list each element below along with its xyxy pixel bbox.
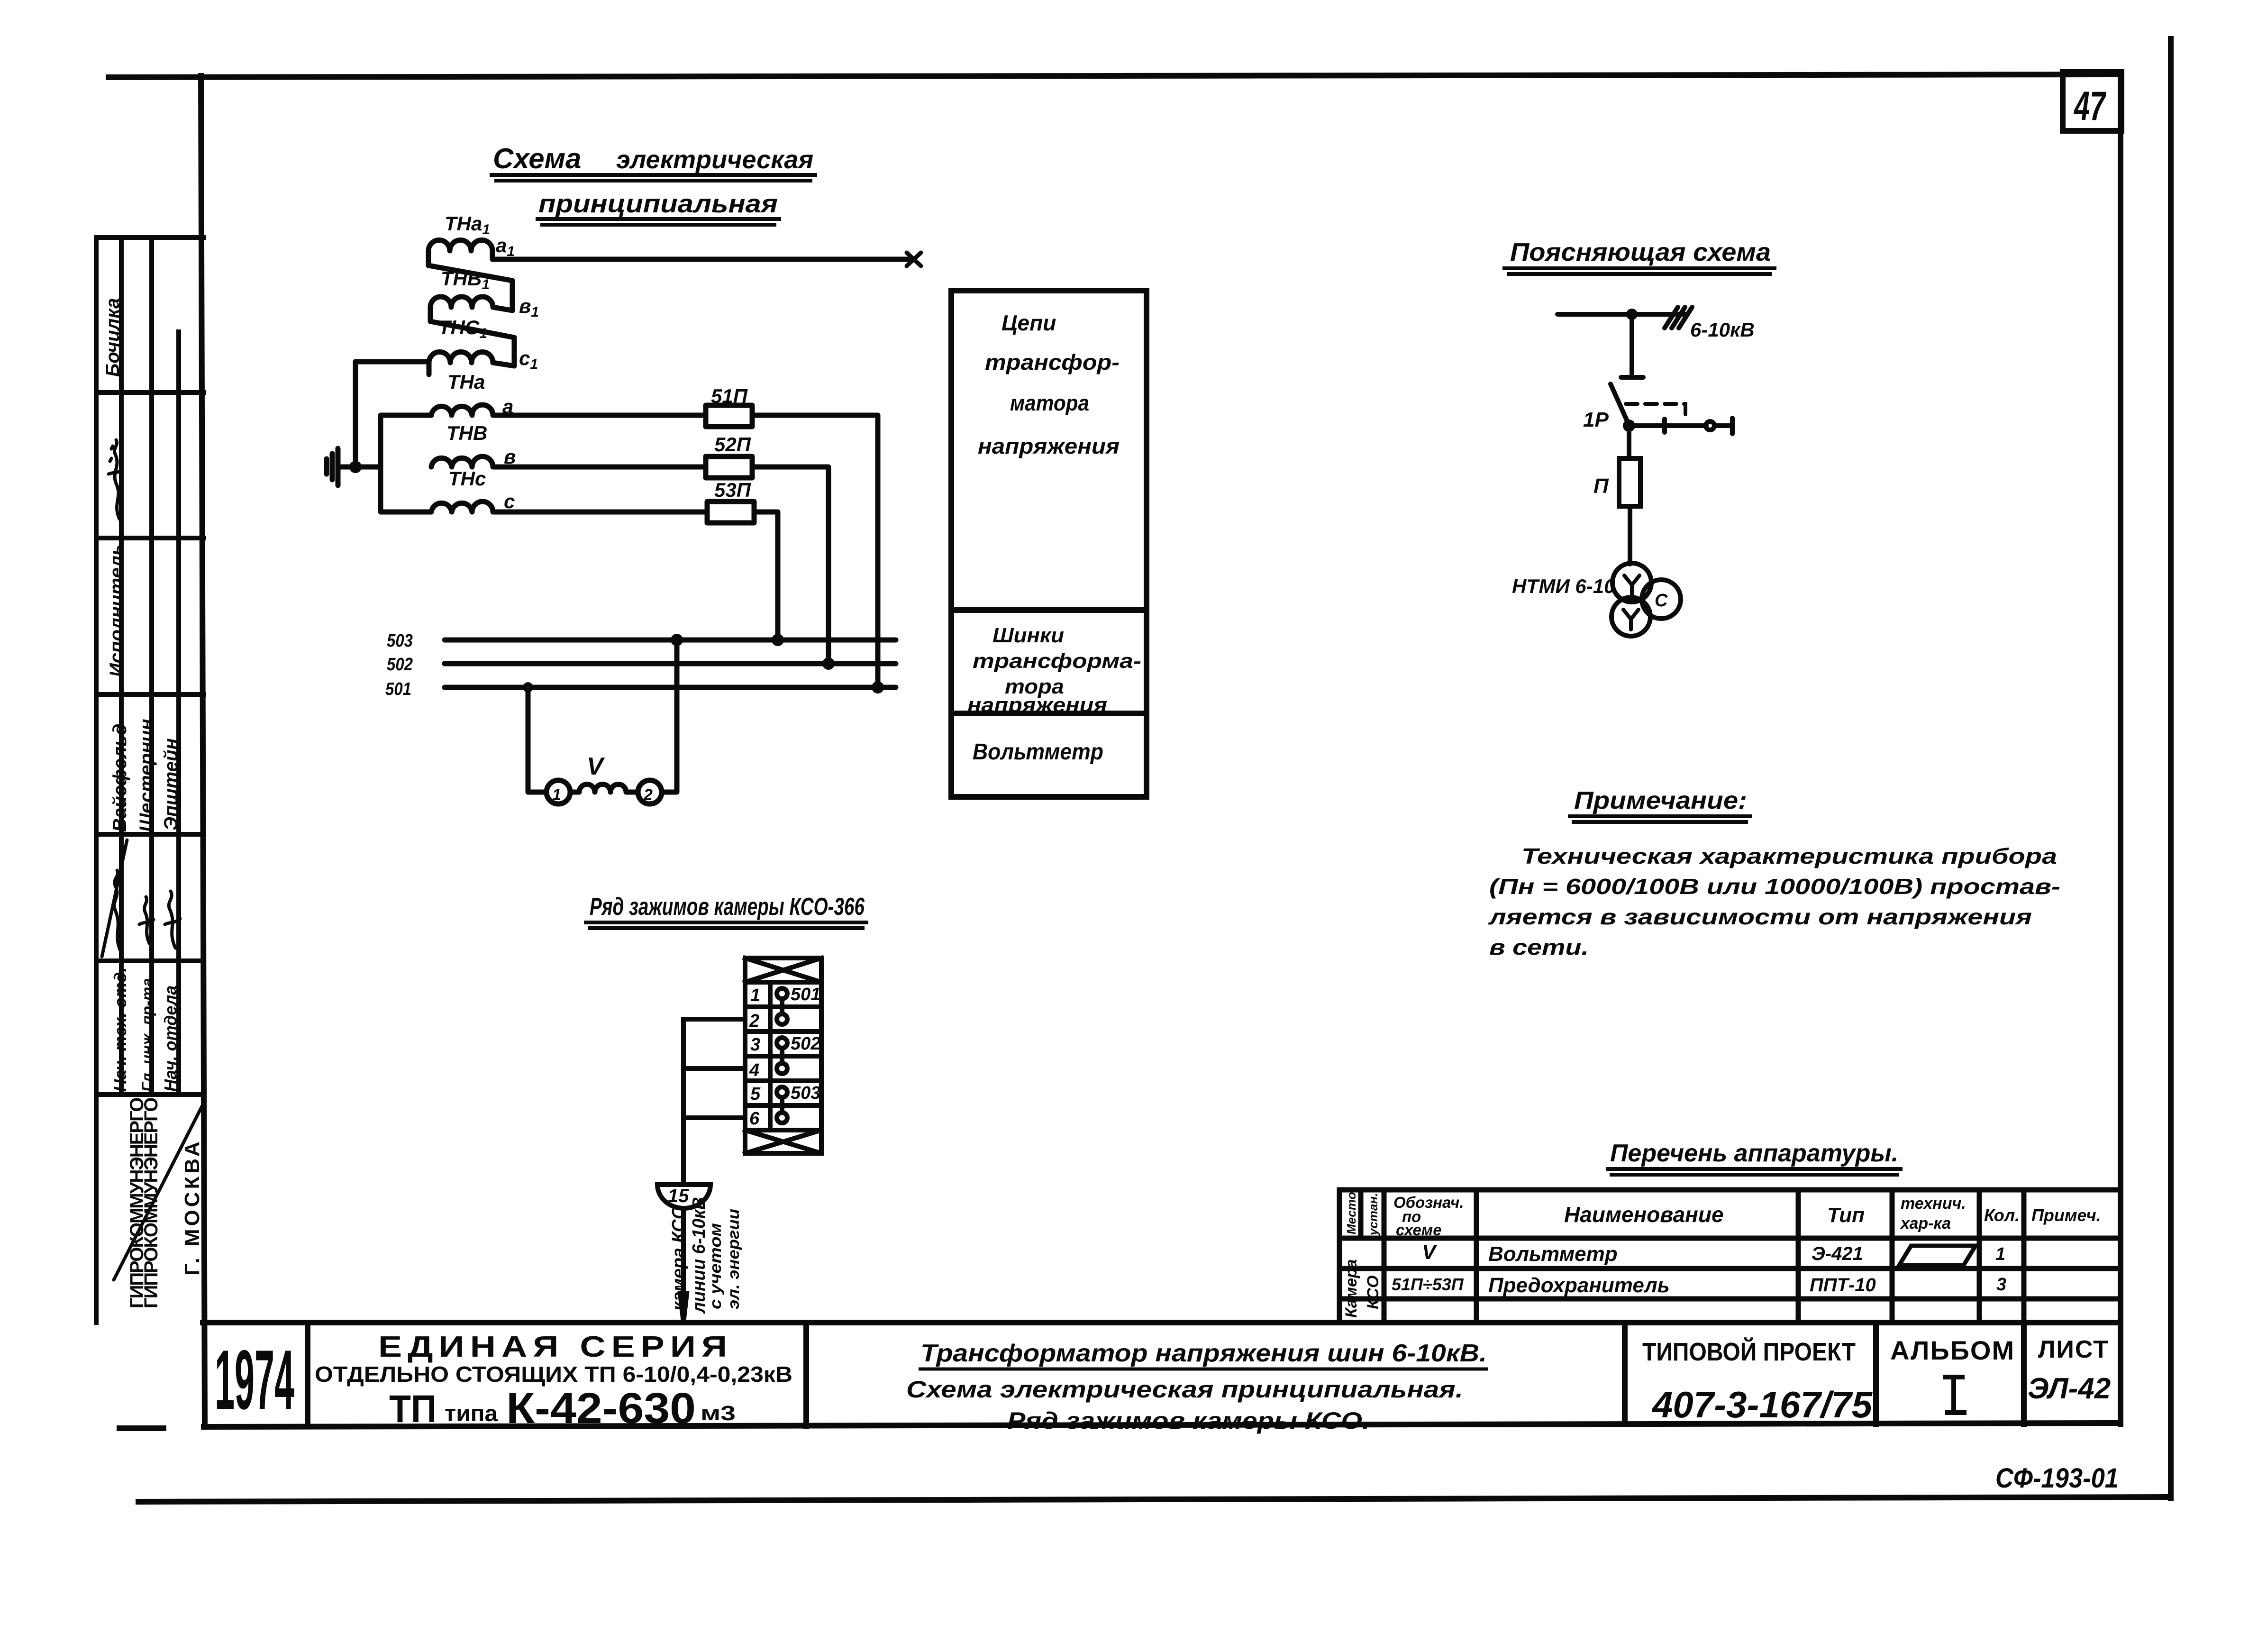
- svg-text:в сети.: в сети.: [1489, 935, 1589, 959]
- svg-text:ТНВ: ТНВ: [446, 422, 487, 444]
- svg-text:51П÷53П: 51П÷53П: [1392, 1275, 1464, 1294]
- svg-text:501: 501: [791, 985, 820, 1004]
- svg-text:Схема: Схема: [493, 143, 581, 174]
- svg-text:напряжения: напряжения: [967, 694, 1107, 717]
- svg-text:Исполнитель: Исполнитель: [106, 544, 127, 677]
- svg-text:1974: 1974: [215, 1333, 294, 1427]
- svg-text:1Р: 1Р: [1583, 408, 1609, 431]
- svg-text:4: 4: [749, 1060, 759, 1080]
- svg-text:1: 1: [1995, 1244, 2005, 1264]
- svg-text:Цепи: Цепи: [1001, 310, 1056, 335]
- svg-text:501: 501: [385, 679, 411, 699]
- svg-text:устан.: устан.: [1366, 1193, 1380, 1236]
- svg-text:47: 47: [2074, 83, 2107, 129]
- svg-text:в: в: [504, 446, 516, 468]
- svg-text:ГИПРОКОММУНЭНЕРГО: ГИПРОКОММУНЭНЕРГО: [141, 1098, 162, 1308]
- svg-text:трансформа-: трансформа-: [973, 649, 1141, 673]
- svg-text:407-3-167/75: 407-3-167/75: [1651, 1384, 1873, 1425]
- svg-text:3: 3: [1996, 1275, 2006, 1295]
- svg-text:линии 6-10кВ: линии 6-10кВ: [689, 1197, 709, 1314]
- svg-text:1: 1: [750, 986, 760, 1005]
- svg-text:Эпштейн: Эпштейн: [161, 738, 182, 831]
- svg-text:ЕДИНАЯ СЕРИЯ: ЕДИНАЯ СЕРИЯ: [378, 1331, 733, 1363]
- svg-text:Бочилка: Бочилка: [102, 298, 123, 377]
- svg-text:503: 503: [791, 1083, 820, 1103]
- svg-text:ЛИСТ: ЛИСТ: [2038, 1336, 2109, 1363]
- svg-text:а: а: [502, 395, 513, 418]
- svg-text:503: 503: [387, 631, 413, 651]
- svg-text:Гл. инж. пр-та: Гл. инж. пр-та: [138, 978, 156, 1092]
- svg-text:напряжения: напряжения: [978, 434, 1120, 458]
- svg-text:ТНа: ТНа: [447, 371, 485, 393]
- svg-text:52П: 52П: [714, 433, 751, 456]
- svg-text:Наименование: Наименование: [1564, 1202, 1724, 1227]
- svg-text:принципиальная: принципиальная: [538, 190, 778, 218]
- svg-text:(Пн = 6000/100В или 10000/100: (Пн = 6000/100В или 10000/100В) простав-: [1489, 874, 2060, 899]
- svg-text:К-42-630: К-42-630: [506, 1384, 696, 1433]
- svg-text:2: 2: [749, 1011, 759, 1031]
- svg-text:электрическая: электрическая: [616, 146, 813, 174]
- svg-text:НТМИ 6-10: НТМИ 6-10: [1512, 575, 1615, 597]
- svg-text:ППТ-10: ППТ-10: [1810, 1275, 1876, 1296]
- svg-text:КСО: КСО: [1364, 1276, 1382, 1309]
- svg-text:типа: типа: [445, 1401, 498, 1426]
- svg-text:Трансформатор напряжения шин 6: Трансформатор напряжения шин 6-10кВ.: [920, 1340, 1487, 1367]
- svg-text:6: 6: [749, 1109, 760, 1129]
- svg-text:технич.: технич.: [1901, 1195, 1966, 1213]
- svg-text:хар-ка: хар-ка: [1900, 1214, 1951, 1232]
- svg-text:2: 2: [643, 786, 653, 804]
- svg-text:Схема электрическая принципи: Схема электрическая принципиальная.: [906, 1376, 1463, 1403]
- svg-text:Вольтметр: Вольтметр: [1488, 1242, 1618, 1266]
- svg-text:Поясняющая схема: Поясняющая схема: [1510, 238, 1771, 266]
- svg-text:502: 502: [387, 655, 413, 675]
- svg-text:1: 1: [552, 786, 561, 804]
- svg-text:Г. МОСКВА: Г. МОСКВА: [181, 1139, 204, 1276]
- svg-text:Примеч.: Примеч.: [2031, 1205, 2101, 1225]
- svg-text:5: 5: [750, 1084, 761, 1104]
- svg-text:ТНс: ТНс: [448, 467, 486, 490]
- svg-text:V: V: [1422, 1241, 1438, 1264]
- svg-text:Вайсфельд: Вайсфельд: [109, 723, 130, 832]
- svg-text:Техническая характеристика п: Техническая характеристика прибора: [1521, 844, 2057, 868]
- svg-text:СФ-193-01: СФ-193-01: [1995, 1463, 2119, 1494]
- svg-text:схеме: схеме: [1396, 1221, 1442, 1239]
- svg-text:Шестернин: Шестернин: [136, 719, 157, 832]
- svg-text:ТИПОВОЙ ПРОЕКТ: ТИПОВОЙ ПРОЕКТ: [1642, 1337, 1856, 1366]
- svg-text:Место: Место: [1344, 1192, 1358, 1234]
- svg-text:м3: м3: [701, 1402, 736, 1425]
- svg-text:ТП: ТП: [389, 1387, 437, 1431]
- svg-text:502: 502: [791, 1034, 820, 1054]
- svg-text:Камера: Камера: [1342, 1259, 1360, 1318]
- svg-text:6-10кВ: 6-10кВ: [1690, 319, 1755, 341]
- svg-text:53П: 53П: [714, 479, 751, 501]
- svg-text:ЭЛ-42: ЭЛ-42: [2028, 1372, 2111, 1405]
- svg-text:С: С: [1655, 591, 1668, 611]
- svg-text:Ряд зажимов камеры КСО.: Ряд зажимов камеры КСО.: [1007, 1407, 1370, 1434]
- svg-text:АЛЬБОМ: АЛЬБОМ: [1890, 1335, 2015, 1365]
- svg-text:Шинки: Шинки: [992, 624, 1064, 647]
- svg-text:с: с: [504, 490, 515, 512]
- svg-text:П: П: [1593, 475, 1609, 498]
- svg-text:3: 3: [750, 1035, 760, 1055]
- svg-text:ОТДЕЛЬНО СТОЯЩИХ ТП 6-10/0,4-: ОТДЕЛЬНО СТОЯЩИХ ТП 6-10/0,4-0,23кВ: [315, 1362, 792, 1387]
- svg-text:Примечание:: Примечание:: [1574, 787, 1747, 814]
- svg-text:Э-421: Э-421: [1812, 1243, 1863, 1264]
- svg-text:Перечень аппаратуры.: Перечень аппаратуры.: [1610, 1140, 1898, 1167]
- svg-text:трансфор-: трансфор-: [985, 350, 1120, 374]
- svg-text:матора: матора: [1010, 391, 1089, 415]
- svg-text:Нач. отдела: Нач. отдела: [161, 986, 180, 1092]
- svg-text:Нач. тех. отд.: Нач. тех. отд.: [110, 967, 130, 1092]
- svg-text:эл. энергии: эл. энергии: [725, 1209, 743, 1309]
- svg-text:15: 15: [668, 1186, 689, 1206]
- svg-text:Вольтметр: Вольтметр: [973, 739, 1103, 765]
- svg-text:камера КСО: камера КСО: [669, 1205, 689, 1311]
- svg-text:Тип: Тип: [1827, 1204, 1865, 1227]
- svg-text:51П: 51П: [711, 385, 748, 407]
- svg-text:Предохранитель: Предохранитель: [1488, 1274, 1670, 1297]
- svg-text:V: V: [587, 753, 605, 780]
- svg-text:с учетом: с учетом: [707, 1223, 725, 1309]
- svg-text:ляется в зависимости от на: ляется в зависимости от напряжения: [1488, 904, 2032, 929]
- svg-text:Кол.: Кол.: [1984, 1205, 2020, 1225]
- svg-text:Ряд зажимов камеры КСО-366: Ряд зажимов камеры КСО-366: [590, 893, 865, 921]
